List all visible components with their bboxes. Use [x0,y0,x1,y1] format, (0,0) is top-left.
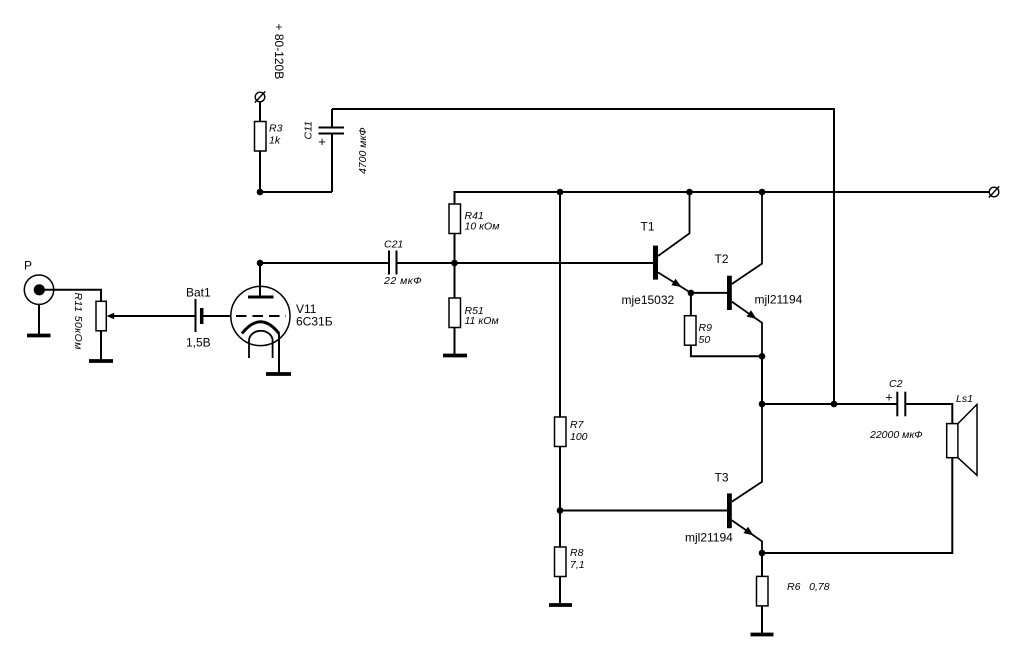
T3 collector [732,404,762,502]
T2 emitter [732,302,762,357]
node D junction [557,507,564,514]
wire output node to C2 [762,403,897,405]
node T1 collector junction [686,189,693,196]
svg-text:C2: C2 [889,378,903,390]
wire speaker bottom to T3 emitter node [762,458,952,553]
svg-text:T2: T2 [715,252,729,266]
resistor R6 [757,576,769,606]
svg-text:P: P [24,259,32,273]
T2 emitter arrow [747,310,757,319]
tube anode plate [248,296,274,299]
transistor T2 base bar [727,276,732,310]
svg-text:+: + [318,134,326,149]
wire node B to anode [259,263,261,297]
wire Bat1 to tube grid [203,315,231,317]
svg-text:R6 0,78: R6 0,78 [787,581,830,593]
svg-text:R11 50кОм: R11 50кОм [72,293,84,350]
svg-text:C21: C21 [384,239,403,251]
T1 emitter [658,272,691,293]
T3 emitter [732,520,762,553]
wire R11 bottom to ground [100,331,102,361]
ground under R51 [443,354,467,358]
svg-text:50: 50 [699,334,711,346]
transistor T3 base bar [727,493,732,528]
wire P to ground [38,304,40,335]
wire C2 to speaker [905,404,952,424]
svg-text:1,5В: 1,5В [186,336,211,350]
svg-text:Bat1: Bat1 [186,286,211,300]
wire R6 to ground [761,606,763,635]
speaker Ls1 [947,404,977,475]
resistor R7 [555,417,567,447]
wire terminal to R3 [259,102,261,122]
potentiometer R11 [96,301,106,331]
tube filament [249,331,273,358]
node rail2-R7 junction [557,189,564,196]
svg-text:mje15032: mje15032 [622,293,675,307]
svg-text:C11: C11 [303,121,315,139]
svg-text:22 мкФ: 22 мкФ [383,275,422,287]
wire T3 emitter to R6 [761,553,763,576]
wire R9 bottom to T2 emitter [691,345,762,356]
tube grid dashed [236,315,286,317]
T1 collector [658,192,690,256]
svg-text:11 кОм: 11 кОм [465,315,499,327]
svg-text:+ 80-120В: + 80-120В [272,24,286,80]
node G output junction [759,401,766,408]
T3 emitter arrow [744,527,754,536]
node A junction [257,189,264,196]
svg-text:R9: R9 [699,322,713,334]
R11 wiper arrow [107,313,115,319]
transistor T1 base bar [653,246,658,280]
wire node B to C21 [260,262,389,264]
output terminal [989,186,999,197]
wire cathode to ground [278,334,280,375]
svg-text:T1: T1 [641,220,655,234]
resistor R8 [555,547,567,577]
svg-text:T3: T3 [715,471,729,485]
resistor R9 [685,316,697,346]
wire node A to C11 [260,191,332,193]
svg-text:R8: R8 [570,547,584,559]
wire top rail C11 to right side down to output node [332,109,834,404]
wire node E to R9 [690,293,692,316]
capacitor C21 [389,251,397,275]
capacitor C11 [319,109,345,192]
wire P to R11 top [39,290,101,302]
svg-text:1k: 1k [269,135,281,147]
wire node E to T2 base [691,292,727,294]
wire R8 to ground [559,577,561,606]
svg-text:Ls1: Ls1 [956,393,973,405]
node I junction T3 emitter [759,550,766,557]
capacitor C2 [897,392,905,417]
resistor R41 [449,204,461,234]
svg-text:7,1: 7,1 [570,559,585,571]
wire R41 bottom to node C [454,234,456,264]
tube cathode arc [242,322,279,334]
node F junction R9-T2e [759,353,766,360]
svg-text:4700 мкФ: 4700 мкФ [357,127,369,174]
svg-text:10 кОм: 10 кОм [465,221,500,233]
node C junction [451,260,458,267]
svg-text:R7: R7 [570,419,585,431]
ground under R8 [549,603,572,607]
wire C21 to T1 base [397,262,654,264]
wire wiper to Bat1 [114,315,196,317]
ground under R11 [89,359,113,363]
wire R51 bottom to ground [454,328,456,356]
node T2 collector junction [759,189,766,196]
wire rail2 down to R7 [559,192,561,417]
wire node D to T3 base [560,510,727,512]
ground under P [27,334,51,338]
wire rail2 R41 top to output terminal [455,192,990,204]
wire R3 to node A [259,151,261,192]
svg-text:+: + [885,390,893,405]
node H junction x834 [831,401,838,408]
resistor R51 [449,298,461,328]
svg-text:100: 100 [570,431,588,443]
connector P [24,275,53,304]
wire R51 top [454,263,456,298]
wire R7 to node D [559,447,561,548]
wire T2 emitter down to output node [761,356,763,404]
ground under tube [266,372,291,376]
power input terminal [255,91,265,102]
node B junction [257,260,264,267]
resistor R3 [255,122,267,152]
node E junction T1 emitter [688,290,695,297]
svg-text:22000 мкФ: 22000 мкФ [869,429,923,441]
svg-text:R3: R3 [269,123,283,135]
T2 collector [732,192,762,284]
svg-text:6С31Б: 6С31Б [296,315,333,329]
tube V11 envelope [231,286,290,345]
svg-text:mjl21194: mjl21194 [685,531,733,545]
svg-text:mjl21194: mjl21194 [755,293,803,307]
battery Bat1 [196,299,202,332]
ground under R6 [751,633,774,637]
T1 emitter arrow [671,279,681,287]
